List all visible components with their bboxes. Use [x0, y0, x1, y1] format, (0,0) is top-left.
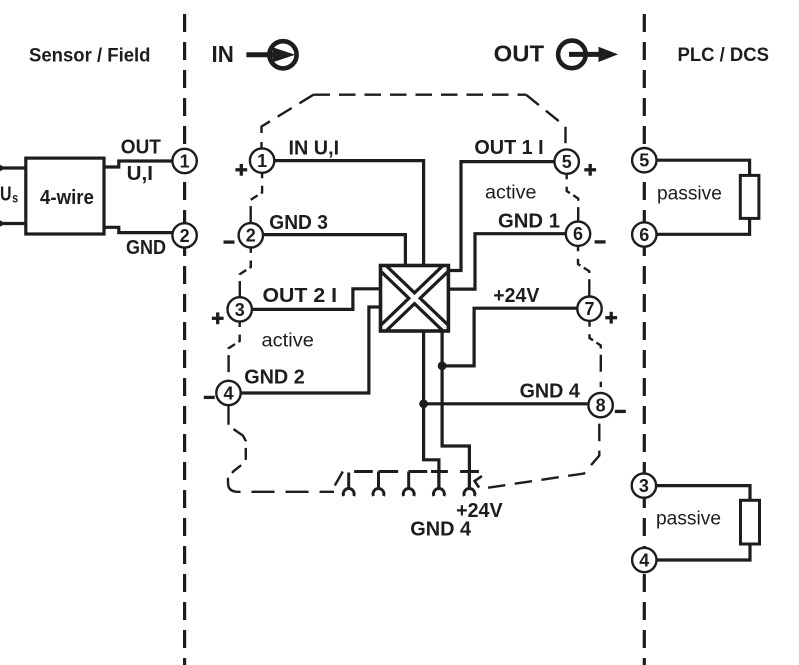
dashed link circle6-circle7: [578, 246, 589, 296]
svg-text:IN: IN: [212, 41, 234, 67]
svg-text:5: 5: [639, 151, 649, 171]
minus sign terminal 4: [204, 396, 215, 399]
plus sign terminal 7: [605, 312, 617, 324]
terminal circle 7 (OUT): [577, 297, 601, 321]
svg-text:GND 1: GND 1: [498, 211, 560, 233]
terminal circle 6 (OUT): [566, 222, 590, 246]
sensor supply arrow 2: [0, 219, 6, 228]
wire GND 4 : circle8 to junction: [424, 402, 589, 405]
svg-text:Sensor / Field: Sensor / Field: [29, 45, 151, 66]
module dashed outline: top-left diagonal + stem to circle 1: [262, 95, 314, 149]
4-wire sensor box: [26, 158, 104, 234]
terminal circle 1 (IN): [250, 148, 274, 172]
wire GND 2 : circle4 to box left: [241, 307, 380, 393]
PLC terminal 5: [632, 148, 656, 172]
bus contact 2: [373, 472, 384, 497]
barrier dashed line left (Sensor/Field | IN): [183, 14, 186, 665]
bus connector bar dashes: [354, 470, 479, 473]
wire GND 3 : circle2 to box top: [263, 235, 406, 267]
barrier dashed line right (OUT | PLC/DCS): [643, 14, 646, 665]
wire PLC 5 to resistor to PLC 6: [657, 160, 750, 234]
IN icon (arrow into circle): [246, 41, 296, 68]
wire: box bottom left vertical down to bus contact 4: [424, 331, 439, 489]
minus sign terminal 6: [595, 240, 606, 243]
PLC terminal 6: [632, 222, 656, 246]
svg-text:GND 3: GND 3: [269, 212, 328, 234]
PLC terminal 4: [632, 548, 656, 572]
svg-text:OUT 1 I: OUT 1 I: [474, 137, 543, 159]
resistor (bottom passive load): [741, 500, 760, 544]
dashed link circle7-circle8: [590, 321, 601, 393]
bus contact 4: [434, 472, 445, 497]
minus sign terminal 8: [615, 410, 626, 413]
svg-text:active: active: [262, 330, 314, 351]
dashed outline: small rise to bus bar: [335, 472, 343, 486]
plus sign terminal 5: [584, 164, 596, 176]
PLC terminal 3: [632, 473, 656, 497]
module dashed outline: top-right diagonal + stem to circle 5: [526, 95, 566, 150]
OUT icon (arrow out of circle): [558, 41, 600, 69]
svg-text:6: 6: [639, 225, 649, 245]
isolator X box: [381, 266, 449, 332]
module dashed outline: top horizontal: [314, 93, 527, 95]
svg-text:1: 1: [257, 151, 267, 171]
svg-text:active: active: [485, 182, 537, 203]
svg-text:passive: passive: [656, 509, 721, 530]
svg-text:OUT: OUT: [494, 41, 545, 67]
svg-text:U,I: U,I: [127, 163, 153, 185]
wire Us bottom: [0, 222, 26, 225]
svg-text:s: s: [12, 191, 18, 206]
svg-text:OUT 2 I: OUT 2 I: [263, 285, 338, 307]
svg-text:+24V: +24V: [493, 285, 540, 307]
bus contact 1: [343, 473, 354, 497]
terminal circle 8 (OUT): [588, 393, 612, 417]
dashed outline below circle4 to bottom-left corner: [228, 405, 246, 478]
bus contact 3: [403, 472, 414, 497]
wire GND 1 : circle6 to box right: [448, 234, 566, 289]
terminal circle 4 (IN): [216, 381, 240, 405]
svg-text:6: 6: [573, 224, 583, 244]
svg-text:GND 4: GND 4: [520, 381, 581, 403]
plus sign terminal 1: [235, 164, 247, 176]
svg-text:4-wire: 4-wire: [40, 187, 94, 209]
dashed link circle3-circle4: [229, 322, 240, 381]
svg-text:U: U: [0, 183, 12, 205]
sensor supply arrow 1: [0, 164, 6, 173]
wire box to terminal 2: [104, 227, 173, 232]
dashed link circle5-circle6: [567, 174, 579, 222]
svg-text:GND: GND: [126, 237, 166, 259]
wire IN U,I : circle1 to box top: [274, 161, 424, 267]
svg-text:1: 1: [180, 151, 190, 171]
terminal circle 5 (OUT): [555, 149, 579, 173]
junction dot GND4: [419, 399, 428, 408]
svg-text:3: 3: [639, 476, 649, 496]
svg-text:GND 4: GND 4: [410, 519, 472, 541]
svg-text:7: 7: [584, 299, 594, 319]
dashed link circle2-circle3: [240, 248, 251, 297]
wire OUT 1 I : circle5 to box right: [448, 162, 554, 271]
plus sign terminal 3: [212, 312, 224, 324]
svg-text:IN U,I: IN U,I: [289, 138, 340, 160]
wire Us top: [0, 166, 26, 169]
bus contact 5: [464, 472, 475, 497]
svg-text:2: 2: [180, 226, 190, 246]
resistor (top passive load): [740, 175, 759, 218]
wire PLC 3 to resistor to PLC 4: [656, 486, 750, 560]
svg-text:OUT: OUT: [121, 137, 161, 159]
svg-text:4: 4: [223, 383, 233, 403]
minus sign terminal 2: [224, 240, 235, 243]
wire: box bottom right vertical down to bus contact 5: [442, 331, 469, 489]
svg-text:passive: passive: [657, 183, 722, 204]
dashed outline hook right of bus contacts: [475, 476, 482, 488]
wire box to terminal 1: [104, 161, 173, 167]
svg-text:3: 3: [235, 300, 245, 320]
dashed outline below circle8 to bus bar right: [488, 417, 599, 487]
wire OUT 2 I : circle3 to box left: [252, 289, 380, 310]
wire +24V : circle7 to junction: [442, 308, 577, 366]
dashed link circle1-circle2: [251, 173, 262, 223]
svg-text:2: 2: [246, 226, 256, 246]
junction dot +24V: [438, 362, 447, 371]
svg-text:GND 2: GND 2: [244, 367, 305, 389]
svg-text:PLC / DCS: PLC / DCS: [678, 45, 770, 66]
terminal circle 3 (IN): [228, 297, 252, 321]
terminal L1: [172, 149, 196, 173]
svg-text:5: 5: [562, 152, 572, 172]
svg-text:4: 4: [639, 550, 649, 570]
terminal circle 2 (IN): [239, 223, 263, 247]
terminal L2: [172, 223, 196, 247]
svg-text:8: 8: [596, 396, 606, 416]
